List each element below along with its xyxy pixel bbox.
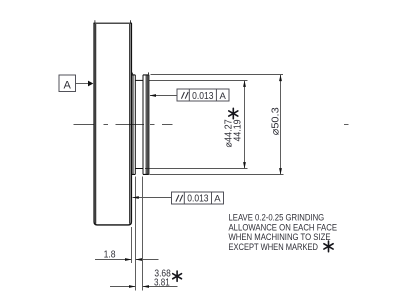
svg-text:A: A xyxy=(214,194,221,205)
svg-text:A: A xyxy=(220,91,227,102)
svg-text:0.013: 0.013 xyxy=(192,91,214,102)
svg-text:0.013: 0.013 xyxy=(187,194,209,205)
svg-text:ALLOWANCE ON EACH FACE: ALLOWANCE ON EACH FACE xyxy=(229,222,338,232)
svg-text:44.19: 44.19 xyxy=(233,119,244,141)
svg-text:3.81: 3.81 xyxy=(154,277,170,288)
svg-text:WHEN MACHINING TO SIZE: WHEN MACHINING TO SIZE xyxy=(229,232,331,242)
svg-text:1.8: 1.8 xyxy=(104,250,116,261)
svg-text:A: A xyxy=(64,79,72,91)
svg-text:EXCEPT WHEN MARKED: EXCEPT WHEN MARKED xyxy=(229,242,319,252)
svg-text:⌀50.3: ⌀50.3 xyxy=(270,107,282,135)
svg-text:LEAVE 0.2-0.25 GRINDING: LEAVE 0.2-0.25 GRINDING xyxy=(229,213,325,223)
